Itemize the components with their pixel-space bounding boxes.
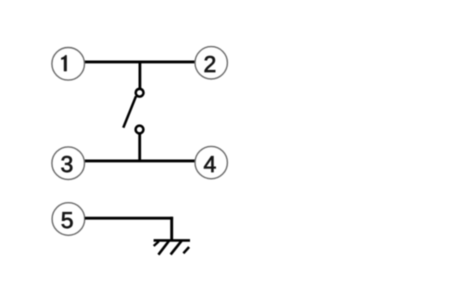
wire: pin5 horizontal run (85, 217, 173, 220)
wire: stub from wire12 down to movable contact (138, 61, 141, 88)
ground (chassis) (154, 240, 190, 254)
switch contact B (lower open circle) (136, 126, 144, 134)
terminal pin 4 (195, 146, 227, 178)
svg-text:3: 3 (61, 151, 74, 177)
terminal pin 5 (52, 203, 85, 236)
wire: vertical drop to ground (170, 217, 173, 241)
svg-text:2: 2 (204, 51, 217, 77)
terminal pin 1 (52, 48, 85, 81)
switch lever (movable arm) (123, 96, 136, 128)
wire: stub from contact B down to wire34 (138, 134, 141, 162)
wire: pin1 to pin2 (85, 60, 196, 63)
svg-text:4: 4 (204, 151, 217, 177)
terminal pin 2 (195, 47, 227, 79)
terminal pin 3 (52, 147, 85, 180)
svg-text:5: 5 (61, 207, 74, 233)
switch contact A (upper open circle) (136, 89, 144, 97)
wire: pin3 to pin4 (85, 159, 196, 162)
